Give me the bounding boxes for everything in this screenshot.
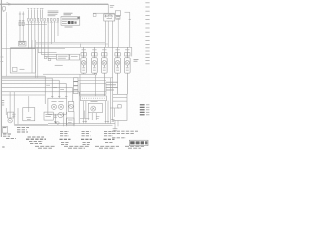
fuse list dark dashes: [140, 105, 145, 115]
fuse row F1-F10: [28, 18, 59, 21]
wire top bus: [0, 3, 108, 5]
wire left verticals bottom: [6, 92, 18, 124]
control unit box U1: [10, 48, 35, 73]
label text cluster right: [106, 82, 118, 90]
connector tiny box b: [48, 59, 51, 61]
wire relay pins down: [105, 21, 112, 94]
wire pair y44: [36, 43, 108, 45]
fuse F12: [22, 22, 24, 26]
motor M2: [58, 101, 63, 109]
connector tiny box a: [44, 57, 47, 59]
connector box CB1: [57, 54, 70, 60]
label near B3: [12, 114, 15, 116]
wire ladder rung 5: [2, 88, 73, 102]
connector ticks above B1: [51, 95, 67, 97]
horn H1: [58, 112, 63, 117]
legend table bottom right: [129, 140, 148, 145]
fuse value cell dark: [68, 21, 71, 24]
label left margin text: [1, 101, 4, 105]
fuse list light col: [146, 105, 149, 115]
legend cell 1: [130, 141, 134, 144]
ecu box top: [80, 84, 106, 95]
diamond junction: [56, 121, 59, 124]
motor M3: [91, 102, 98, 112]
wire ladder rung 2: [2, 78, 52, 98]
ground G2: [113, 129, 118, 132]
wire labels near drops: [46, 85, 71, 92]
wire horizontal to relay: [93, 12, 115, 14]
caption block M1: [60, 131, 71, 144]
wire bus y47: [10, 47, 132, 56]
connector strip CS1: [81, 96, 107, 101]
caption footer row: [35, 146, 144, 148]
wire left edge: [0, 0, 2, 137]
connector box BL: [8, 112, 14, 118]
wire branch left: [6, 12, 8, 76]
motor M1: [51, 101, 56, 109]
wire ladder rung 3: [2, 80, 59, 98]
caption block M2: [81, 131, 92, 144]
box B3: [23, 108, 35, 121]
label left edge small: [0, 57, 3, 62]
label text block A: [48, 11, 59, 16]
switch inside B3: [26, 118, 31, 120]
node ticks on bus: [83, 121, 110, 123]
legend cell 2: [136, 141, 140, 144]
wire inside B4: [114, 108, 116, 117]
fusible link ticks: [28, 8, 44, 10]
wire ladder rung 1: [2, 76, 45, 104]
label inside U1: [20, 68, 25, 70]
label header text: [64, 13, 73, 15]
caption block L1: [3, 128, 29, 139]
wire h y80.5: [78, 80, 106, 82]
wire bottom-left bus: [14, 123, 48, 125]
lighter socket: [8, 119, 12, 123]
wire drops below fuses: [28, 21, 58, 58]
label pin numbers: [28, 22, 59, 24]
caption block M3: [104, 131, 115, 142]
diode D1: [116, 16, 120, 19]
box B5 with text: [44, 112, 53, 120]
wire drop from junction: [95, 75, 97, 96]
solenoid L2 group: [92, 47, 98, 74]
wire below B4: [114, 120, 116, 128]
connector box CB1b: [70, 54, 80, 60]
relay inside U1: [13, 67, 18, 71]
wire sensor feed a: [19, 12, 25, 42]
junction block table J/B: [61, 17, 80, 26]
wire pair y42: [36, 41, 105, 43]
wire long y77.8: [2, 77, 113, 79]
wire into B4: [110, 107, 119, 109]
wire below B1: [54, 114, 56, 121]
corner mark: [2, 146, 4, 148]
pigtail component: [93, 14, 96, 17]
node tick: [3, 11, 5, 13]
legend cell 3: [141, 141, 144, 144]
caption block R: [112, 131, 138, 138]
node stub: [79, 44, 81, 48]
node tick: [6, 2, 8, 4]
motor box B2: [88, 103, 102, 112]
wire collector under lamps: [43, 73, 95, 75]
relay K2: [67, 118, 74, 125]
wire h y91.7: [80, 91, 106, 93]
solenoid L5 group: [125, 47, 131, 94]
connector C04 twin circles: [19, 41, 26, 46]
connector C05: [118, 105, 121, 108]
wire y118.4: [80, 117, 89, 119]
wire ladder rung 6: [2, 92, 79, 124]
fuse value cell dark: [71, 21, 73, 24]
motor box B1: [48, 98, 67, 114]
label right margin list mid: [145, 45, 149, 64]
label right margin list top: [145, 3, 149, 41]
connector box BL2: [3, 127, 8, 133]
connector C01: [3, 7, 6, 10]
node tick d: [129, 18, 131, 20]
node tick b: [8, 3, 10, 5]
wire drop x80: [79, 74, 81, 96]
wire bottom verticals mid: [64, 78, 111, 127]
wire ground bus 2: [14, 124, 112, 126]
wire ladder rung 4: [2, 83, 66, 98]
fuse F11: [19, 22, 21, 26]
comp below B4: [111, 120, 114, 122]
connector below B2: [96, 117, 99, 119]
wire bus y48.5: [2, 48, 65, 50]
row line 1: [113, 97, 127, 99]
connector stack S1: [73, 78, 78, 94]
wire right drop2: [117, 19, 119, 48]
fuse value cell dark: [74, 21, 76, 23]
ECU box B4: [113, 94, 127, 120]
wire into U1: [31, 40, 33, 73]
junction circle: [95, 73, 97, 75]
sensor R1: [68, 102, 74, 112]
legend cell 4: [145, 141, 147, 144]
row line 2: [113, 100, 127, 102]
wire rung y95: [2, 94, 45, 96]
wire into B3: [28, 96, 30, 112]
wire relay feed: [107, 4, 109, 13]
fuse value mark: [77, 17, 79, 19]
caption block L2: [26, 137, 46, 143]
connector C03: [115, 11, 120, 18]
connector ticks: [54, 115, 57, 117]
wire comb feeds: [28, 9, 42, 18]
solenoid L1 group: [81, 47, 87, 74]
wire into U1 b: [34, 40, 36, 78]
wire to right drop: [125, 12, 130, 47]
solenoid L4 group: [115, 47, 121, 94]
solenoid L3 group: [102, 47, 108, 95]
label at feed: [110, 6, 114, 8]
scan noise overlay: [0, 0, 1, 1]
wire right of U1: [37, 47, 39, 78]
label dash under box: [55, 64, 63, 66]
ground arrow: [54, 121, 56, 124]
label right of L5: [134, 59, 139, 61]
wire bottom center verticals: [84, 111, 96, 120]
label text below table: [65, 26, 73, 28]
wire ground bus: [48, 123, 115, 125]
wire horizontal: [25, 23, 47, 25]
node tick c: [9, 3, 11, 5]
wire x118 down: [117, 120, 119, 126]
relay K1: [104, 14, 115, 21]
